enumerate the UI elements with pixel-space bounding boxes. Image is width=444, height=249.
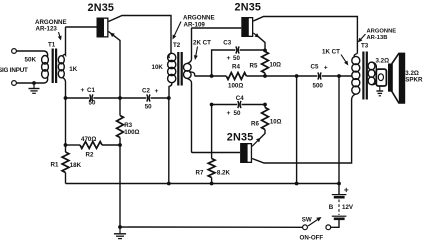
svg-text:+: +: [155, 88, 159, 95]
label 1K: [69, 66, 77, 73]
label R6 10: [251, 119, 282, 127]
svg-text:C1: C1: [87, 87, 95, 94]
label 2N35 (Q2): [235, 2, 262, 14]
svg-text:C3: C3: [223, 40, 231, 47]
label B: [329, 204, 334, 211]
svg-text:1K: 1K: [69, 66, 77, 73]
resistor R5: [262, 52, 269, 74]
label + C1: [81, 87, 96, 94]
wire C4 node to R6 top: [264, 105, 266, 108]
Q1 collector wire to T2 primary: [109, 16, 172, 54]
input terminal (bottom): [12, 81, 44, 86]
svg-text:+: +: [227, 55, 231, 62]
resistor R2: [80, 142, 102, 149]
svg-text:10Ω: 10Ω: [270, 63, 282, 69]
svg-text:AR-109: AR-109: [184, 21, 206, 28]
capacitor C3: [236, 46, 239, 53]
label T2: [173, 42, 181, 49]
arrow to T2: [173, 22, 182, 40]
label 50 (C1): [89, 100, 96, 107]
ground (speaker): [376, 86, 383, 96]
Q1 emitter wire: [109, 32, 121, 99]
label R3 100: [124, 122, 139, 136]
svg-text:AR-123: AR-123: [36, 26, 58, 33]
label + (battery): [344, 185, 349, 195]
svg-text:50: 50: [145, 104, 152, 111]
label 50K: [25, 57, 37, 64]
label 3.2 ohm SPKR: [405, 70, 423, 84]
wire C3 right to Q2 emitter node: [240, 49, 267, 53]
wire C1 row left: [66, 97, 90, 99]
Q2 emitter wire: [253, 33, 265, 50]
label C2 +: [142, 88, 159, 96]
svg-text:10K: 10K: [152, 64, 164, 71]
wire C3 left corner: [212, 50, 236, 76]
svg-text:2K CT: 2K CT: [193, 40, 211, 47]
svg-text:SIG INPUT: SIG INPUT: [0, 67, 28, 74]
speaker 3.2 ohm: [376, 53, 404, 103]
wire C4 node down to R7: [211, 105, 213, 159]
arrow to T3: [358, 34, 366, 43]
switch terminal left: [303, 225, 308, 230]
transformer T1: [42, 28, 66, 84]
capacitor C1: [90, 94, 93, 101]
svg-text:12V: 12V: [342, 204, 354, 211]
resistor R1: [62, 152, 69, 173]
transistor Q1 2N35: [97, 18, 109, 38]
label 2N35 (Q3): [227, 132, 254, 144]
wire bias bus to B+ rail: [296, 76, 298, 184]
svg-text:3.2Ω: 3.2Ω: [376, 58, 390, 65]
wire CT bus right to T3: [322, 74, 352, 78]
svg-text:R6: R6: [251, 121, 259, 128]
capacitor C2: [147, 94, 150, 101]
label ARGONNE AR-123: [35, 19, 67, 33]
label 2K CT: [193, 40, 211, 47]
transformer T2: [168, 29, 195, 152]
input terminal (top): [12, 49, 44, 54]
svg-text:50: 50: [89, 100, 96, 107]
svg-text:+: +: [81, 87, 85, 94]
svg-text:50: 50: [234, 110, 241, 117]
label C5 +: [311, 64, 328, 72]
wire R3 bottom to R2 node: [118, 138, 122, 147]
label 1K CT: [322, 49, 340, 56]
B+ rail: [66, 182, 340, 186]
arrow to T1: [58, 32, 62, 41]
Q2 collector wire to T3 primary: [253, 17, 357, 54]
wire R2 node down to ground rail: [119, 145, 121, 227]
svg-text:470Ω: 470Ω: [81, 136, 96, 143]
svg-text:50: 50: [233, 55, 240, 62]
label R5 10: [250, 63, 282, 70]
label R2: [86, 152, 94, 159]
resistor R7: [208, 159, 215, 178]
label T1: [48, 42, 56, 49]
svg-text:C5: C5: [311, 64, 319, 71]
wire battery positive: [337, 76, 341, 194]
svg-text:B: B: [329, 204, 334, 211]
svg-text:8.2K: 8.2K: [217, 170, 231, 177]
svg-text:R2: R2: [86, 152, 94, 159]
Q3 emitter wire to R6: [252, 130, 265, 147]
wire battery negative to switch: [331, 219, 339, 228]
svg-text:18K: 18K: [70, 162, 82, 169]
wire R2 right: [102, 144, 120, 146]
Q3 collector wire to T3 primary bottom: [252, 99, 352, 163]
svg-text:100Ω: 100Ω: [124, 129, 139, 136]
label SIG INPUT: [0, 67, 28, 74]
label R7 8.2K: [196, 170, 231, 177]
svg-text:R1: R1: [51, 162, 59, 169]
wire R2 left: [66, 144, 81, 146]
capacitor C4: [238, 101, 241, 108]
wire T2 secondary bottom to Q3 base: [192, 152, 241, 153]
label R4: [232, 64, 240, 71]
svg-text:T2: T2: [173, 42, 181, 49]
battery B 12V: [332, 195, 347, 219]
svg-text:+: +: [344, 185, 349, 195]
switch terminal right: [326, 225, 331, 230]
svg-text:ON-OFF: ON-OFF: [300, 235, 324, 242]
wire T2 primary bottom to B+ rail: [168, 98, 170, 184]
transformer T3: [352, 52, 377, 100]
wire CT bus left: [195, 74, 227, 78]
label 10K: [152, 64, 164, 71]
svg-text:T1: T1: [48, 42, 56, 49]
label 50 (C2): [145, 104, 152, 111]
resistor R3: [117, 116, 124, 138]
label SW: [302, 216, 312, 223]
label 2N35 (Q1): [88, 2, 115, 14]
arrow to T2 center tap: [194, 47, 198, 61]
wire R1 bottom to B+ rail: [65, 173, 67, 184]
svg-text:C4: C4: [236, 95, 244, 102]
svg-text:R7: R7: [196, 170, 204, 177]
svg-text:1K CT: 1K CT: [322, 49, 340, 56]
resistor R4: [226, 73, 246, 80]
svg-text:C2: C2: [142, 88, 150, 95]
label +50 (C4): [227, 110, 241, 117]
wire C1 to Q1 emitter node: [93, 96, 146, 100]
svg-text:SPKR: SPKR: [405, 77, 423, 84]
wire CT bus mid: [246, 74, 317, 78]
label 100 (R4): [228, 82, 243, 89]
wire R5 bottom: [263, 73, 267, 78]
label +50 (C3): [227, 55, 241, 62]
svg-text:500: 500: [313, 82, 324, 89]
svg-text:2N35: 2N35: [88, 2, 115, 14]
wire C4 right: [242, 103, 267, 107]
label ARGONNE AR-13B: [367, 29, 397, 41]
svg-text:AR-13B: AR-13B: [367, 35, 388, 41]
wire C4 left: [210, 103, 238, 107]
transistor Q2 2N35: [241, 17, 253, 37]
svg-text:2N35: 2N35: [227, 132, 254, 144]
transistor Q3 2N35: [240, 143, 252, 163]
wire T1 secondary top to Q1 base: [66, 26, 97, 29]
arrow to T3 center tap: [341, 55, 348, 66]
label 3.2 ohm (T3): [376, 58, 390, 65]
svg-text:ARGONNE: ARGONNE: [367, 29, 397, 35]
svg-text:T3: T3: [361, 43, 369, 50]
label R1 18K: [51, 162, 82, 170]
svg-text:+: +: [324, 65, 328, 72]
svg-text:R5: R5: [250, 63, 258, 70]
ground (main): [114, 227, 126, 239]
wire R7 bottom to B+ rail: [211, 178, 213, 184]
wire T1 secondary bottom down: [64, 82, 68, 145]
label ON-OFF: [300, 235, 324, 242]
svg-text:R3: R3: [124, 122, 132, 129]
svg-text:+: +: [227, 110, 231, 117]
wire C2 to T2 primary bottom node: [151, 96, 171, 100]
switch lever SW: [308, 217, 322, 226]
wire R3 top: [119, 98, 121, 116]
label C4: [236, 95, 244, 102]
label 12V: [342, 204, 354, 211]
svg-text:R4: R4: [232, 64, 240, 71]
label T3: [361, 43, 369, 50]
label 500 (C5): [313, 82, 324, 89]
svg-text:50K: 50K: [25, 57, 37, 64]
svg-text:10Ω: 10Ω: [270, 119, 282, 125]
label ARGONNE AR-109: [183, 15, 215, 29]
label 470 (R2): [81, 136, 96, 143]
resistor R6: [262, 108, 269, 130]
ground (input): [29, 83, 40, 93]
wire node to R1 top: [64, 143, 68, 152]
capacitor C5: [318, 72, 321, 79]
wire T2 secondary top to Q2 base: [192, 27, 242, 30]
svg-text:100Ω: 100Ω: [228, 82, 243, 89]
wire ground rail: [118, 225, 303, 229]
svg-text:2N35: 2N35: [235, 2, 262, 14]
svg-text:SW: SW: [302, 216, 312, 223]
label C3: [223, 40, 231, 47]
